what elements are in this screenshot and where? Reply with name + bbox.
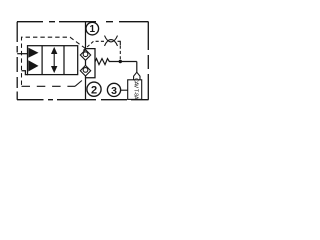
svg-text:1: 1 (90, 24, 96, 35)
svg-text:3: 3 (111, 85, 117, 97)
svg-text:2: 2 (91, 84, 97, 96)
svg-text:CAV T-8A: CAV T-8A (133, 78, 139, 100)
